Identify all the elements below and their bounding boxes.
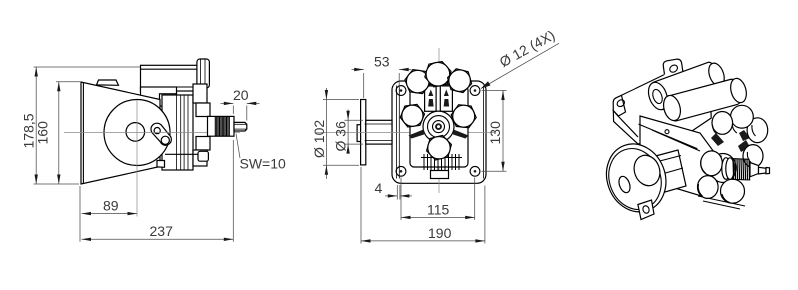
svg-text:115: 115 [427, 202, 450, 218]
svg-text:190: 190 [428, 225, 452, 241]
svg-text:Ø 102: Ø 102 [311, 120, 327, 158]
svg-text:4: 4 [375, 180, 383, 196]
svg-text:20: 20 [233, 87, 249, 103]
svg-text:237: 237 [150, 223, 174, 239]
svg-text:53: 53 [374, 54, 390, 70]
svg-text:160: 160 [35, 121, 51, 145]
svg-text:89: 89 [103, 198, 119, 214]
svg-text:SW=10: SW=10 [240, 156, 287, 172]
svg-text:130: 130 [487, 121, 503, 145]
svg-text:Ø 36: Ø 36 [333, 121, 349, 152]
